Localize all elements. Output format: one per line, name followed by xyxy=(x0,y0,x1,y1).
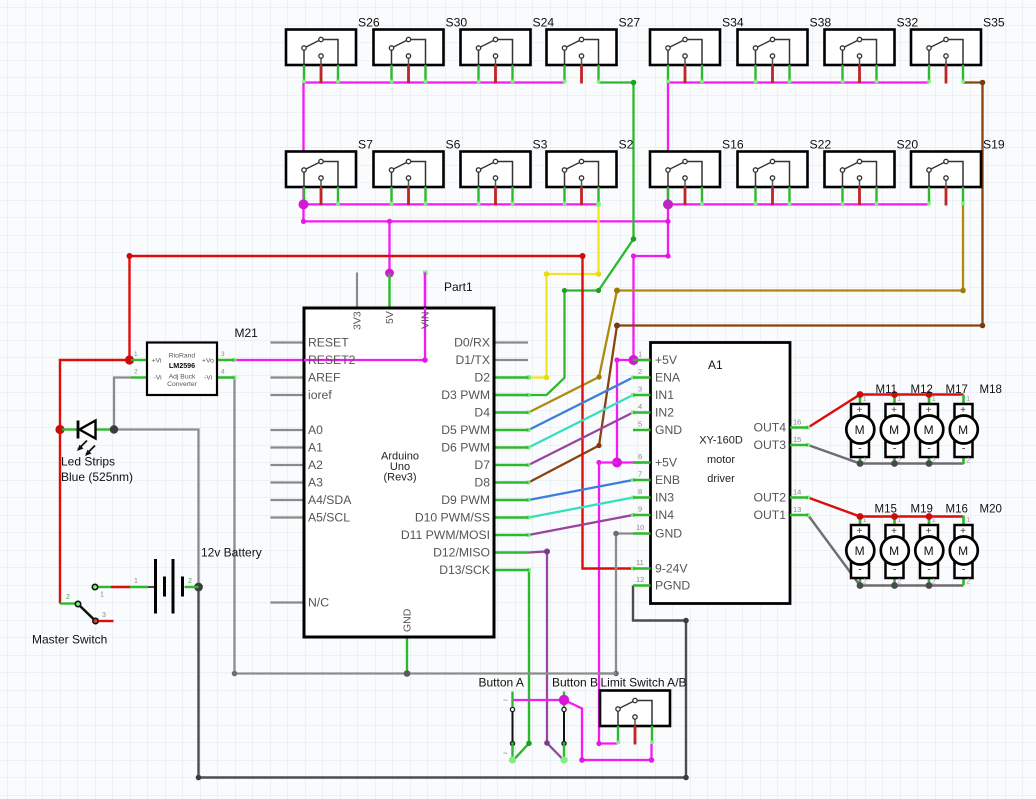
svg-text:2: 2 xyxy=(66,594,70,601)
wire: purple D7 to IN2 xyxy=(529,413,634,466)
svg-text:S3: S3 xyxy=(533,138,548,152)
node: olive bend 963-290 xyxy=(960,288,966,294)
LED D1 triangle xyxy=(80,421,96,439)
A1 right pin labels xyxy=(753,421,786,523)
svg-text:S26: S26 xyxy=(358,16,380,30)
svg-text:ENA: ENA xyxy=(655,371,681,385)
node: green dot 633-239 xyxy=(631,236,637,242)
svg-text:13: 13 xyxy=(793,505,801,514)
node: connection tips on A1 input pins xyxy=(631,376,635,571)
svg-text:6: 6 xyxy=(638,452,642,461)
master switch S1 lever xyxy=(80,606,95,620)
wire: row1 left magenta bus S26-S27 xyxy=(304,81,565,83)
motor M15 xyxy=(846,516,874,586)
svg-text:D5 PWM: D5 PWM xyxy=(441,423,490,437)
button B pin2 tip xyxy=(560,756,567,763)
svg-text:D4: D4 xyxy=(474,406,490,420)
wire: gray battery+ to -Vi and LED xyxy=(114,378,199,588)
wire: row2 right magenta bus S16-S19 xyxy=(668,203,929,205)
switch S6 xyxy=(374,152,444,206)
button B top stub xyxy=(563,692,565,709)
svg-text:D12/MISO: D12/MISO xyxy=(433,546,490,560)
svg-text:D2: D2 xyxy=(474,371,490,385)
svg-text:S22: S22 xyxy=(810,138,832,152)
wire: magenta VIN overlay xyxy=(424,273,426,361)
node: magenta junction row2 bus right xyxy=(663,199,673,209)
node: red dot M19 xyxy=(891,513,898,520)
node: tip at 9-24V pin xyxy=(631,567,635,571)
button A pin2 circle xyxy=(510,741,514,745)
switch S2 xyxy=(547,152,617,206)
wire: purple D12 to Button B xyxy=(529,552,565,761)
node: S2R tip xyxy=(596,202,600,206)
svg-text:OUT1: OUT1 xyxy=(753,508,786,522)
node: bend dot VIN-RESET2 xyxy=(422,357,427,362)
node: dark dot M11 bottom xyxy=(857,460,864,467)
svg-text:RESET2: RESET2 xyxy=(308,353,356,367)
switch S32 xyxy=(825,30,895,84)
svg-text:N/C: N/C xyxy=(308,596,329,610)
svg-text:M15: M15 xyxy=(875,504,897,516)
buck converter M21 leads xyxy=(131,360,235,378)
wire: green arduino GND drop xyxy=(406,637,408,674)
svg-text:+Vo: +Vo xyxy=(202,358,214,365)
svg-text:D9 PWM: D9 PWM xyxy=(441,493,490,507)
node: big magenta junction +5V pin1 xyxy=(629,355,639,365)
node: dark battery junction xyxy=(194,583,203,592)
wire: red master pin1 to battery pin1 xyxy=(111,586,131,588)
wire: purple D11 to IN4 xyxy=(529,515,634,535)
svg-text:M18: M18 xyxy=(980,384,1002,396)
motor M20 xyxy=(950,516,978,586)
wire: gray GND net A1 pin10 xyxy=(235,378,634,674)
battery BAT1 plates xyxy=(156,559,183,614)
motor driver A1 body xyxy=(651,343,791,604)
svg-text:3: 3 xyxy=(638,385,642,394)
motor M18 xyxy=(950,395,978,465)
svg-text:OUT4: OUT4 xyxy=(753,421,786,435)
M21 text xyxy=(167,353,198,389)
button A pin1 circle xyxy=(510,707,514,711)
motor labels group1 xyxy=(875,384,1002,516)
svg-text:S6: S6 xyxy=(446,138,461,152)
node: yellow bend 546-275 xyxy=(544,271,550,277)
node: green dot 564-290 xyxy=(562,288,567,293)
wire: red OUT2 to motor bus 2 xyxy=(808,498,964,517)
master switch S1 pin3 terminal xyxy=(93,618,98,623)
svg-text:IN1: IN1 xyxy=(655,388,674,402)
node: red dot M15 xyxy=(857,513,864,520)
node: olive bend 617-290 xyxy=(614,288,620,294)
button A top stub xyxy=(511,692,513,709)
switch S27 xyxy=(547,30,617,84)
wire: magenta branch down to limit switch A xyxy=(599,463,618,744)
svg-text:A0: A0 xyxy=(308,423,323,437)
arduino left pin labels xyxy=(308,336,356,610)
A1 right pin numbers xyxy=(793,418,801,515)
svg-text:IN4: IN4 xyxy=(655,508,674,522)
svg-text:16: 16 xyxy=(793,418,801,427)
node: brown bend 599-445 xyxy=(596,443,601,448)
svg-text:GND: GND xyxy=(655,527,682,541)
svg-text:A1: A1 xyxy=(308,441,323,455)
svg-text:IN3: IN3 xyxy=(655,491,674,505)
arduino U1 pin leads right green xyxy=(494,378,529,571)
svg-text:M21: M21 xyxy=(235,326,259,340)
svg-text:S27: S27 xyxy=(619,16,641,30)
svg-text:driver: driver xyxy=(707,473,735,485)
node: bend dot 668-221 xyxy=(665,219,670,224)
master switch S1 pin1 stub xyxy=(97,586,111,588)
svg-text:LM2596: LM2596 xyxy=(169,361,195,370)
wire: magenta S34 vertical down to +5V pin1 of A1 xyxy=(634,83,669,361)
wire: magenta RESET2 to M21 +Vo xyxy=(235,273,426,361)
node: tip at M21 -Vo gray junction xyxy=(233,376,237,380)
wire: row1 right magenta bus S34-S35 xyxy=(668,81,929,83)
svg-text:M19: M19 xyxy=(911,504,933,516)
svg-text:M11: M11 xyxy=(876,384,898,396)
button A contact bar xyxy=(512,712,514,743)
node: D2 tip xyxy=(527,375,531,379)
button tildes xyxy=(503,696,560,758)
node: dark dot M12 bottom xyxy=(891,460,898,467)
svg-text:2: 2 xyxy=(638,367,642,376)
svg-text:1: 1 xyxy=(100,592,104,599)
node: red dot master-LED junction xyxy=(55,425,64,434)
svg-text:3: 3 xyxy=(221,351,225,358)
svg-text:8: 8 xyxy=(638,487,642,496)
svg-text:4: 4 xyxy=(221,369,225,376)
node: yellow bend 546-377 xyxy=(544,375,550,381)
svg-text:OUT2: OUT2 xyxy=(753,491,786,505)
wire: red main power net xyxy=(60,256,634,604)
node: bend dot 668-256 xyxy=(665,253,670,258)
motor M19 xyxy=(881,516,909,586)
node: dark dot 686-620 xyxy=(683,618,689,624)
button B contact bar xyxy=(563,712,565,743)
wire: gray OUT1 to motor bus 2 bottom xyxy=(808,515,964,586)
svg-text:1: 1 xyxy=(134,351,138,358)
wire: magenta branch to +5V pin6 xyxy=(617,360,651,463)
A1 pin leads left xyxy=(633,360,651,586)
arduino U1 body xyxy=(304,308,494,637)
buck converter M21 body xyxy=(147,343,217,396)
svg-text:15: 15 xyxy=(793,435,801,444)
node: gray dot 616-673 xyxy=(613,671,619,677)
switch S24 xyxy=(461,30,531,84)
svg-text:-Vi: -Vi xyxy=(154,375,163,382)
button B pin1 circle xyxy=(562,707,566,711)
svg-text:S24: S24 xyxy=(533,16,555,30)
svg-text:D1/TX: D1/TX xyxy=(455,353,490,367)
master switch S1 pin2 terminal xyxy=(75,601,80,606)
wire: green D13 to Button A xyxy=(513,570,529,761)
switch S30 xyxy=(374,30,444,84)
node: gray dot 234-673 xyxy=(232,671,238,677)
arduino center text xyxy=(381,451,419,484)
svg-text:S16: S16 xyxy=(722,138,744,152)
node: yellow bend 598-274 xyxy=(596,271,602,277)
button A pin2 tip xyxy=(509,756,516,763)
svg-text:AREF: AREF xyxy=(308,371,341,385)
battery BAT1 pin2 lead xyxy=(185,586,199,588)
svg-text:3: 3 xyxy=(102,612,106,619)
svg-text:RioRand: RioRand xyxy=(169,353,196,360)
switch S38 xyxy=(738,30,808,84)
node: bend dot 599-743 xyxy=(596,741,601,746)
svg-text:10: 10 xyxy=(636,523,644,532)
arduino U1 pin leads left xyxy=(271,343,529,603)
node: VIN pin top tip xyxy=(423,271,427,275)
svg-text:S32: S32 xyxy=(897,16,919,30)
node: red dot M17 xyxy=(926,391,933,398)
node: magenta dot on 5V pin top xyxy=(385,269,394,278)
wire: blue D5 to ENA xyxy=(529,378,634,431)
node: connection tips on A1 OUT pins xyxy=(806,426,810,517)
svg-text:D7: D7 xyxy=(474,458,490,472)
svg-text:A1: A1 xyxy=(708,358,723,372)
svg-text:+5V: +5V xyxy=(655,456,678,470)
wire: green D3 to S27 right pin xyxy=(495,83,634,396)
limit switch S40 xyxy=(600,691,670,745)
svg-text:M17: M17 xyxy=(946,384,968,396)
svg-text:D11 PWM/MOSI: D11 PWM/MOSI xyxy=(401,528,490,542)
svg-text:7: 7 xyxy=(638,470,642,479)
svg-text:A5/SCL: A5/SCL xyxy=(308,511,350,525)
motor M12 xyxy=(881,395,909,465)
svg-text:PGND: PGND xyxy=(655,579,690,593)
svg-text:4: 4 xyxy=(638,402,642,411)
svg-text:Master Switch: Master Switch xyxy=(32,633,107,647)
svg-text:Blue (525nm): Blue (525nm) xyxy=(61,470,133,484)
node: bend dot 599-462 xyxy=(596,460,601,465)
svg-text:1: 1 xyxy=(134,578,138,585)
svg-text:VIN: VIN xyxy=(420,311,432,329)
node: olive bend 599-377 xyxy=(596,374,601,379)
node: bend dot 389 xyxy=(387,219,392,224)
wire: yellow D2 to S2 right pin xyxy=(529,204,599,377)
A1 center text xyxy=(699,435,743,486)
node: dark dot 686-777 xyxy=(683,775,689,781)
LED D1 anode stub xyxy=(62,428,78,430)
wire: magenta button net xyxy=(513,700,652,760)
switch S7 xyxy=(286,152,356,206)
wire: magenta +5V pin1 into A1 xyxy=(617,359,651,361)
pin lead: arduino 3V3 gray xyxy=(356,273,358,309)
node: dark dot M15 bottom xyxy=(857,582,864,589)
svg-text:A4/SDA: A4/SDA xyxy=(308,493,352,507)
switch S35 xyxy=(911,30,981,84)
svg-text:Button B: Button B xyxy=(552,676,598,690)
node: big magenta dot button B pin1 xyxy=(559,695,569,705)
node: dark dot LED anode xyxy=(110,425,118,433)
wire: brown D8 to S35 right pin xyxy=(529,83,983,483)
svg-text:11: 11 xyxy=(636,558,644,567)
node: bend dot 651-760 xyxy=(649,757,655,763)
A1 pin leads right xyxy=(790,428,808,516)
switch S3 xyxy=(461,152,531,206)
node: big magenta junction +5V pin6 xyxy=(612,458,622,468)
arduino right pin labels xyxy=(401,336,490,578)
svg-text:Part1: Part1 xyxy=(444,280,473,294)
svg-text:M12: M12 xyxy=(911,384,933,396)
LED D1 cathode stub xyxy=(96,428,111,430)
switch S22 xyxy=(738,152,808,206)
node: red dot M11 xyxy=(857,391,864,398)
svg-text:D8: D8 xyxy=(474,476,490,490)
switch S20 xyxy=(825,152,895,206)
node: bend dot 303 xyxy=(301,219,306,224)
node: VIN-RESET2 dot xyxy=(422,357,428,363)
node: tip at M21 +Vo magenta junction xyxy=(233,358,237,362)
node: dark dot 198-777 xyxy=(196,775,202,781)
svg-text:RESET: RESET xyxy=(308,336,349,350)
wire: red OUT4 to motor bus 1 xyxy=(808,395,964,428)
node: gray dot 616-533 xyxy=(613,531,619,537)
node: bend dot 582-760 xyxy=(579,757,585,763)
svg-text:GND: GND xyxy=(655,423,682,437)
node: GND junction dot xyxy=(404,670,411,677)
node: dark dot M16 bottom xyxy=(926,582,933,589)
arduino rotated top pin labels xyxy=(352,311,432,632)
wire: magenta drop to arduino 5V xyxy=(388,221,390,273)
svg-text:2: 2 xyxy=(134,369,138,376)
M21 pin labels xyxy=(152,358,215,382)
node: brown bend 982-82 xyxy=(980,80,986,86)
svg-text:S30: S30 xyxy=(446,16,468,30)
svg-text:9-24V: 9-24V xyxy=(655,562,688,576)
button B bottom stub xyxy=(563,745,565,761)
LED D1 bar xyxy=(77,421,80,439)
svg-text:S20: S20 xyxy=(897,138,919,152)
svg-text:OUT3: OUT3 xyxy=(753,438,786,452)
svg-text:D10 PWM/SS: D10 PWM/SS xyxy=(415,511,490,525)
wire: magenta RESET2 inside body xyxy=(304,359,425,361)
svg-text:ioref: ioref xyxy=(308,388,332,402)
svg-text:D6 PWM: D6 PWM xyxy=(441,441,490,455)
switch labels row1 xyxy=(358,16,1005,152)
motor M11 xyxy=(846,395,874,465)
node: red dot M21 +Vi junction xyxy=(125,355,134,364)
motor M17 xyxy=(915,395,943,465)
svg-text:~: ~ xyxy=(503,696,508,705)
node: brown bend 982-325 xyxy=(980,323,986,329)
svg-text:3V3: 3V3 xyxy=(352,311,364,330)
switch S26 xyxy=(286,30,356,84)
svg-text:2: 2 xyxy=(188,578,192,585)
LED D1 emission arrows xyxy=(77,441,95,457)
svg-text:Button A: Button A xyxy=(479,676,524,690)
wire: gray OUT3 to motor bus 1 bottom xyxy=(808,445,964,464)
svg-text:D13/SCK: D13/SCK xyxy=(439,563,490,577)
node: connection tips on arduino D pins xyxy=(527,393,531,572)
svg-text:~: ~ xyxy=(555,696,560,705)
svg-text:S19: S19 xyxy=(983,138,1005,152)
svg-text:5: 5 xyxy=(638,420,642,429)
switch S19 xyxy=(911,152,981,206)
svg-text:14: 14 xyxy=(793,488,801,497)
svg-text:ENB: ENB xyxy=(655,473,680,487)
svg-text:S7: S7 xyxy=(358,138,373,152)
master switch S1 pin1 terminal xyxy=(92,584,97,589)
battery BAT1 pin1 lead xyxy=(148,586,154,588)
svg-text:~: ~ xyxy=(503,749,508,758)
wire: row2 left magenta bus S7-S2 xyxy=(304,203,599,205)
svg-text:+5V: +5V xyxy=(655,353,678,367)
node: green dot 529-743 xyxy=(526,741,532,747)
svg-text:motor: motor xyxy=(707,454,735,466)
svg-text:Limit Switch A/B: Limit Switch A/B xyxy=(601,676,687,690)
button B pin2 circle xyxy=(562,741,566,745)
button A bottom stub xyxy=(511,745,513,761)
node: brown bend 617-325 xyxy=(614,323,620,329)
master switch S1 pin3 stub red xyxy=(99,620,114,622)
node: green dot 598-290 xyxy=(596,288,601,293)
M21 pin numbers xyxy=(134,351,225,376)
master switch S1 pin2 stub xyxy=(60,602,76,604)
node: dark dot M17 bottom xyxy=(926,460,933,467)
wire: cyan D10 to IN3 xyxy=(529,498,634,518)
svg-text:+Vi: +Vi xyxy=(152,358,162,365)
svg-text:Led Strips: Led Strips xyxy=(61,455,115,469)
svg-text:9: 9 xyxy=(638,505,642,514)
svg-text:IN2: IN2 xyxy=(655,406,674,420)
node: red bend 129-256 xyxy=(127,253,133,259)
svg-text:A2: A2 xyxy=(308,458,323,472)
svg-text:Adj Buck: Adj Buck xyxy=(169,374,196,381)
svg-text:Converter: Converter xyxy=(167,381,198,388)
wire: magenta vertical S26 to row2 bus xyxy=(302,83,304,205)
svg-text:(Rev3): (Rev3) xyxy=(383,472,416,484)
pin lead: arduino 5V green xyxy=(388,273,390,308)
svg-text:12: 12 xyxy=(636,575,644,584)
svg-text:D3 PWM: D3 PWM xyxy=(441,388,490,402)
A1 pin numbers left xyxy=(636,350,644,585)
wire: gray limit GND horizontal tail xyxy=(600,672,616,674)
node: red dot M12 xyxy=(891,391,898,398)
svg-text:S38: S38 xyxy=(810,16,832,30)
switch S16 xyxy=(650,152,720,206)
node: green dot 633-82 xyxy=(631,80,637,86)
node: magenta junction row2 bus left xyxy=(299,199,309,209)
node: red dot M16 xyxy=(926,513,933,520)
svg-text:~: ~ xyxy=(555,749,560,758)
A1 left pin labels xyxy=(655,353,690,593)
wire: olive D4 to S19 right pin xyxy=(529,204,964,412)
svg-text:S35: S35 xyxy=(983,16,1005,30)
node: red bend 582-256 xyxy=(580,253,586,259)
svg-text:S2: S2 xyxy=(619,138,634,152)
svg-text:M16: M16 xyxy=(946,504,968,516)
svg-text:S34: S34 xyxy=(722,16,744,30)
svg-text:-Vi: -Vi xyxy=(204,375,213,382)
wire: magenta VIN inside body xyxy=(424,308,426,361)
wire: blue D9 to ENB xyxy=(529,480,634,500)
node: purple dot 547-743 xyxy=(544,740,550,746)
node: bend dot 633-256 xyxy=(631,253,636,258)
node: purple dot 547-551 xyxy=(544,549,550,555)
node: dark dot M19 bottom xyxy=(891,582,898,589)
wire: magenta drop to y221 bus xyxy=(304,204,669,221)
svg-text:12v Battery: 12v Battery xyxy=(201,546,262,560)
svg-text:GND: GND xyxy=(402,608,414,632)
wire: dark PGND net xyxy=(199,586,687,778)
svg-text:D0/RX: D0/RX xyxy=(454,336,490,350)
svg-text:M20: M20 xyxy=(980,504,1002,516)
wire: cyan D6 to IN1 xyxy=(529,395,634,448)
motor M16 xyxy=(915,516,943,586)
svg-text:XY-160D: XY-160D xyxy=(699,435,743,447)
